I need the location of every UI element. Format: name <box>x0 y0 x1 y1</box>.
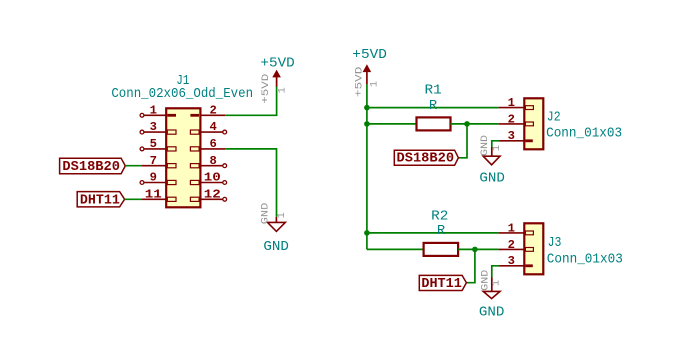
svg-text:GND: GND <box>480 135 491 156</box>
J1 pin 8 <box>190 154 226 168</box>
power symbol GND (under J2) <box>479 135 505 187</box>
svg-text:GND: GND <box>479 306 505 321</box>
J1 pin 6 <box>190 137 225 151</box>
power symbol +5VD (left) <box>260 56 294 103</box>
svg-text:GND: GND <box>261 203 272 225</box>
junction at rail / J2 pin1 wire <box>364 105 370 111</box>
junction at rail / J3 pin1 wire <box>364 230 370 236</box>
svg-text:+5VD: +5VD <box>261 74 272 104</box>
J1 pin 4 <box>190 120 226 134</box>
J3 pin 1 <box>499 221 534 235</box>
svg-text:DS18B20: DS18B20 <box>397 152 455 167</box>
svg-text:GND: GND <box>263 240 289 255</box>
wire DS18B20 to J1 pin 7 <box>125 165 141 167</box>
junction R1 right / DS18B20 branch <box>464 121 470 127</box>
svg-text:1: 1 <box>150 103 157 117</box>
J1 pin 1 <box>140 103 176 117</box>
wire DHT11 to J1 pin 11 <box>125 198 142 200</box>
wire J3 pin 3 to GND <box>492 266 500 278</box>
svg-text:GND: GND <box>479 172 505 187</box>
svg-text:12: 12 <box>204 187 221 201</box>
svg-text:R1: R1 <box>425 84 442 99</box>
wire J2 pin 3 to GND <box>492 141 500 147</box>
global label DS18B20 (left) <box>60 158 126 175</box>
svg-text:R2: R2 <box>431 209 448 224</box>
svg-text:1: 1 <box>492 145 503 151</box>
svg-text:DS18B20: DS18B20 <box>62 160 120 175</box>
svg-text:1: 1 <box>492 280 503 286</box>
svg-text:GND: GND <box>481 270 492 291</box>
J1 pin 2 <box>190 103 225 117</box>
J2 value Conn_01x03 <box>546 127 622 142</box>
svg-text:DHT11: DHT11 <box>80 194 120 209</box>
connector J2 body <box>524 98 543 149</box>
svg-text:2: 2 <box>210 103 217 117</box>
J2 reference label <box>547 110 561 125</box>
wire rail to R1 left <box>367 123 417 125</box>
connector J1 body <box>166 108 200 207</box>
svg-text:J3: J3 <box>548 236 562 251</box>
svg-text:3: 3 <box>150 120 157 134</box>
junction at rail / R1 wire <box>364 121 370 127</box>
svg-text:6: 6 <box>210 137 217 151</box>
power symbol +5VD (right) <box>352 48 387 97</box>
svg-text:Conn_01x03: Conn_01x03 <box>546 127 622 142</box>
R1 reference label <box>425 84 442 99</box>
wire J1 pin 6 to GND <box>225 149 276 217</box>
svg-text:3: 3 <box>508 254 515 268</box>
power symbol GND (under J1) <box>261 203 289 255</box>
svg-text:2: 2 <box>508 238 515 252</box>
svg-text:2: 2 <box>508 112 515 126</box>
J1 pin 9 <box>140 171 176 185</box>
svg-text:1: 1 <box>277 212 288 218</box>
svg-text:+5VD: +5VD <box>355 67 366 98</box>
wire rail to J2 pin 1 <box>367 107 499 109</box>
connector J3 body <box>524 223 543 274</box>
svg-text:+5VD: +5VD <box>260 56 294 71</box>
junction R2 right / DHT11 branch <box>472 247 478 253</box>
svg-text:J2: J2 <box>547 110 561 125</box>
svg-text:Conn_02x06_Odd_Even: Conn_02x06_Odd_Even <box>111 86 253 102</box>
wire J1 pin 2 to +5VD <box>225 86 276 115</box>
J1 pin 11 <box>141 187 176 201</box>
wire DHT11 branch vertical <box>466 249 475 282</box>
svg-text:R: R <box>437 224 445 239</box>
svg-text:7: 7 <box>150 154 157 168</box>
J1 pin 12 <box>190 187 226 201</box>
wire DS18B20 branch vertical <box>458 124 467 158</box>
global label DHT11 (right) <box>419 275 466 292</box>
J2 pin 1 <box>499 96 534 110</box>
svg-text:1: 1 <box>278 87 289 93</box>
svg-text:1: 1 <box>369 81 380 87</box>
J1 value Conn_02x06_Odd_Even <box>111 86 253 102</box>
svg-text:4: 4 <box>210 120 217 134</box>
svg-text:+5VD: +5VD <box>352 48 387 63</box>
resistor R2 <box>424 243 459 256</box>
J1 pin 10 <box>190 171 226 185</box>
svg-text:5: 5 <box>150 137 157 151</box>
power symbol GND (under J3) <box>479 270 505 321</box>
R1 value R <box>429 99 437 114</box>
resistor R1 <box>417 117 451 130</box>
J1 pin 3 <box>140 120 176 134</box>
J1 reference label <box>176 74 189 89</box>
R2 reference label <box>431 209 448 224</box>
wire rail corner to R2 left <box>367 248 424 250</box>
svg-text:3: 3 <box>508 129 515 143</box>
svg-text:9: 9 <box>150 171 157 185</box>
svg-text:DHT11: DHT11 <box>421 277 462 292</box>
svg-text:8: 8 <box>210 154 217 168</box>
global label DS18B20 (right) <box>394 150 458 167</box>
J3 value Conn_01x03 <box>547 252 623 267</box>
svg-text:1: 1 <box>508 96 515 110</box>
J3 pin 2 <box>499 238 534 252</box>
svg-text:R: R <box>429 99 437 114</box>
svg-text:10: 10 <box>204 171 221 185</box>
wire R2 right to J3 pin 2 <box>458 248 499 250</box>
svg-text:1: 1 <box>508 221 515 235</box>
wire R1 right to J2 pin 2 <box>451 123 499 125</box>
wire rail to J3 pin 1 <box>367 232 499 234</box>
global label DHT11 (left) <box>77 192 124 209</box>
svg-text:Conn_01x03: Conn_01x03 <box>547 252 623 267</box>
J2 pin 3 <box>499 129 533 143</box>
svg-text:11: 11 <box>145 187 162 201</box>
J3 pin 3 <box>499 254 533 268</box>
J1 pin 5 <box>140 137 176 151</box>
J2 pin 2 <box>499 112 534 126</box>
R2 value R <box>437 224 445 239</box>
wire +5VD rail vertical <box>366 84 368 249</box>
J3 reference label <box>548 236 562 251</box>
J1 pin 7 <box>141 154 176 168</box>
